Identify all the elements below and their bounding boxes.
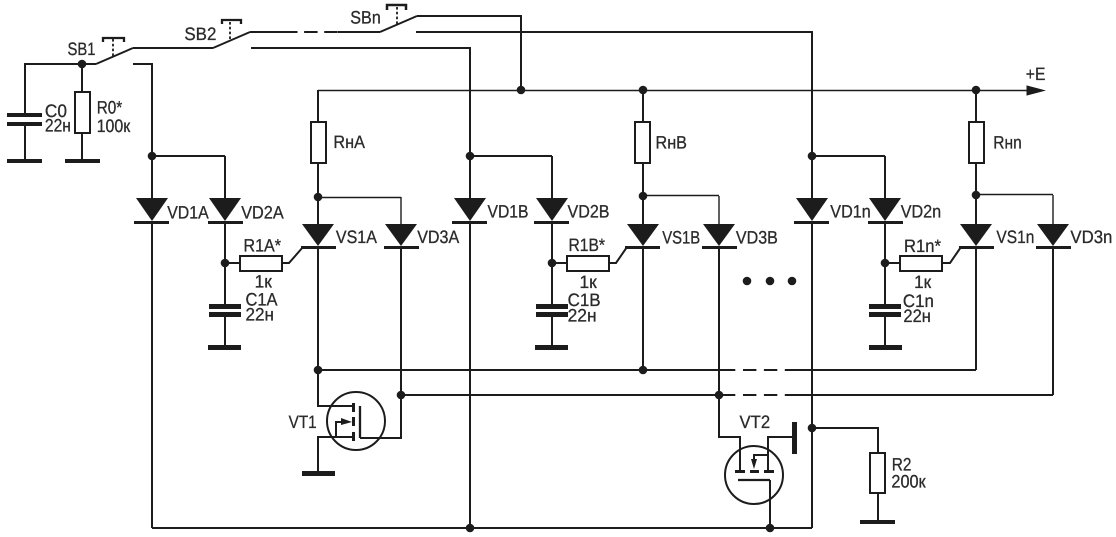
wire VS1A cathode down bbox=[317, 249, 319, 370]
svg-text:22н: 22н bbox=[246, 304, 275, 324]
svg-text:VD3n: VD3n bbox=[1070, 227, 1112, 247]
wire chain to SBn pivot bbox=[338, 31, 380, 33]
wire VD2A cathode to C1A bbox=[224, 224, 226, 304]
wire +E rail bbox=[318, 90, 1027, 92]
diode VD1B bbox=[452, 156, 487, 224]
node Rнn bottom junction bbox=[972, 191, 981, 200]
svg-text:SBn: SBn bbox=[350, 7, 381, 27]
wire VT2 source to sensor plate bbox=[768, 437, 792, 470]
wire VT1 gate bbox=[360, 395, 401, 438]
node ellipsis dots bbox=[743, 277, 797, 286]
resistor R2 bbox=[870, 453, 885, 520]
svg-text:VT2: VT2 bbox=[740, 412, 771, 432]
switch SBn arm bbox=[380, 16, 417, 32]
svg-text:+E: +E bbox=[1026, 64, 1046, 84]
wire VD2B cathode to C1B bbox=[551, 224, 553, 304]
label C1A 22н bbox=[246, 290, 278, 325]
node R1A junction bbox=[221, 259, 230, 268]
node VT2 drain junction bbox=[715, 391, 724, 400]
node VS1B cathode junction bbox=[639, 366, 648, 375]
svg-text:RнA: RнA bbox=[333, 132, 365, 152]
svg-text:VS1B: VS1B bbox=[662, 228, 700, 248]
resistor R1A* bbox=[225, 256, 282, 271]
switch SB1 arm bbox=[96, 48, 133, 64]
resistor R0* bbox=[75, 64, 90, 159]
node RнB top junction bbox=[639, 86, 648, 95]
node VD1A top junction bbox=[148, 152, 157, 161]
label R0* 100к bbox=[97, 98, 131, 136]
diode VD2A bbox=[208, 156, 243, 224]
svg-text:VD3A: VD3A bbox=[417, 227, 459, 247]
svg-text:R1A*: R1A* bbox=[244, 235, 282, 255]
node VD1B top junction bbox=[466, 152, 475, 161]
svg-text:200к: 200к bbox=[891, 472, 925, 492]
wire VT2 gate to bottom rail bbox=[769, 480, 771, 528]
label R1n* 1к bbox=[904, 236, 941, 292]
svg-text:VD2n: VD2n bbox=[901, 202, 942, 222]
svg-text:VS1A: VS1A bbox=[336, 227, 377, 247]
node VT1 gate junction bbox=[397, 391, 406, 400]
wire R1A to VS1A gate bbox=[282, 247, 303, 263]
svg-text:R1n*: R1n* bbox=[904, 236, 941, 256]
svg-text:SB2: SB2 bbox=[184, 24, 216, 44]
node bottom rail VT2 gate junction bbox=[766, 524, 775, 533]
diode VD1A bbox=[134, 156, 169, 224]
svg-text:SB1: SB1 bbox=[68, 39, 96, 59]
wire VS1B cathode down bbox=[642, 249, 644, 370]
capacitor C1B bbox=[536, 304, 568, 345]
wire VS cathode rail left bbox=[318, 369, 735, 371]
thyristor VS1A bbox=[301, 197, 336, 249]
svg-text:22н: 22н bbox=[903, 306, 931, 326]
svg-text:VD1B: VD1B bbox=[488, 202, 529, 222]
wire VD3n cathode down bbox=[1052, 249, 1054, 395]
svg-text:1к: 1к bbox=[580, 272, 597, 292]
svg-text:22н: 22н bbox=[568, 305, 597, 325]
ground R0 bbox=[65, 159, 100, 163]
node VS1A cathode junction bbox=[314, 366, 323, 375]
wire VD2n cathode to C1n bbox=[884, 224, 886, 304]
node +E arrow bbox=[1027, 85, 1047, 95]
capacitor C1n bbox=[869, 304, 901, 345]
node VD1n top junction bbox=[808, 152, 817, 161]
svg-text:VD2B: VD2B bbox=[568, 202, 610, 222]
wire Rнn to VD3n link bbox=[976, 194, 1053, 196]
capacitor C0 bbox=[7, 113, 42, 159]
svg-text:100к: 100к bbox=[97, 116, 131, 136]
wire VD3 cathode rail left bbox=[401, 394, 735, 396]
switch SB2 button actuator bbox=[222, 20, 241, 41]
ground C1A bbox=[208, 345, 241, 350]
resistor R1B* bbox=[552, 256, 609, 271]
svg-text:VD3B: VD3B bbox=[736, 228, 778, 248]
svg-text:VD2A: VD2A bbox=[241, 203, 284, 223]
ground C0 bbox=[7, 159, 42, 163]
resistor R1n* bbox=[885, 256, 942, 271]
wire C0 top to SB1 node bbox=[25, 64, 96, 113]
wire RнB to VD3B link bbox=[643, 195, 719, 197]
resistor RнB bbox=[635, 90, 650, 196]
node RнB bottom junction bbox=[639, 192, 648, 201]
transistor VT1 bbox=[327, 392, 385, 450]
node R1B junction bbox=[548, 259, 557, 268]
thyristor VS1B bbox=[625, 196, 660, 249]
wire SB2 fixed contact down to VD1B bbox=[251, 48, 470, 156]
label R1B* 1к bbox=[569, 235, 606, 292]
ground R2 bbox=[860, 520, 895, 524]
node Rнn top junction bbox=[972, 86, 981, 95]
svg-text:VD1n: VD1n bbox=[830, 202, 871, 222]
diode VD3B bbox=[702, 196, 737, 249]
wire SB1 fixed contact down bbox=[133, 64, 152, 156]
label C0 22н bbox=[45, 101, 71, 136]
wire RнA to VD3A link bbox=[318, 197, 401, 199]
wire VD1B to VD2B link bbox=[470, 155, 552, 157]
diode VD2B bbox=[534, 156, 569, 224]
diode VD1n bbox=[794, 156, 829, 224]
node SBn to +E junction bbox=[517, 86, 526, 95]
node bottom rail VD1B junction bbox=[466, 524, 475, 533]
wire VD3 cathode rail dashed bbox=[743, 394, 798, 396]
wire VT2 drain bbox=[719, 395, 740, 470]
svg-text:22н: 22н bbox=[45, 116, 71, 136]
svg-text:1к: 1к bbox=[255, 272, 272, 292]
node RнA bottom junction bbox=[314, 193, 323, 202]
wire bottom rail bbox=[152, 527, 812, 529]
svg-text:VT1: VT1 bbox=[289, 412, 317, 432]
wire VS cathode rail right bbox=[798, 369, 976, 371]
wire VS1n cathode down bbox=[975, 249, 977, 370]
switch SBn button actuator bbox=[387, 5, 406, 25]
switch SB2 arm bbox=[213, 32, 250, 48]
wire R1B to VS1B gate bbox=[609, 247, 627, 263]
svg-text:RнB: RнB bbox=[656, 132, 688, 152]
node SB1 junction bbox=[78, 60, 87, 69]
wire VD3A cathode down bbox=[400, 249, 402, 395]
wire SB1 output to SB2 pivot bbox=[133, 47, 213, 49]
wire VD1A cathode to bottom rail bbox=[151, 224, 153, 528]
label R1A* 1к bbox=[244, 235, 282, 291]
resistor Rнn bbox=[969, 90, 984, 195]
node R2 top junction bbox=[808, 424, 817, 433]
svg-text:Rнn: Rнn bbox=[993, 132, 1022, 152]
wire VD1n to VD2n link bbox=[812, 155, 885, 157]
ground C1n bbox=[869, 345, 902, 350]
diode VD3n bbox=[1036, 195, 1071, 249]
resistor RнA bbox=[311, 90, 326, 197]
wire SB2 output solid bbox=[250, 31, 284, 33]
wire VD1A to VD2A link bbox=[152, 155, 225, 157]
wire R2 node to resistor bbox=[812, 428, 878, 453]
label R2 200к bbox=[891, 455, 925, 492]
switch SB1 button actuator bbox=[103, 38, 124, 57]
thyristor VS1n bbox=[959, 195, 994, 249]
wire R1n to VS1n gate bbox=[942, 247, 961, 263]
svg-text:1к: 1к bbox=[914, 272, 931, 292]
wire SBn output to +E rail bbox=[417, 16, 521, 90]
diode VD2n bbox=[868, 156, 903, 224]
node sensor plate E1 bbox=[792, 422, 797, 454]
svg-text:R1B*: R1B* bbox=[569, 235, 606, 255]
ground VT1 source bbox=[302, 471, 335, 476]
label C1n 22н bbox=[903, 291, 934, 326]
capacitor C1A bbox=[209, 304, 241, 345]
node R1n junction bbox=[881, 259, 890, 268]
svg-text:R0*: R0* bbox=[97, 98, 123, 118]
wire chain dashed continuation bbox=[284, 31, 338, 33]
ground C1B bbox=[535, 345, 568, 350]
transistor VT2 bbox=[725, 446, 783, 504]
svg-text:VD1A: VD1A bbox=[167, 203, 209, 223]
wire VD1B cathode to bottom rail bbox=[469, 224, 471, 528]
wire VD3 cathode rail right bbox=[798, 394, 1053, 396]
diode VD3A bbox=[384, 197, 419, 249]
wire SBn fixed contact down to VD1n bbox=[416, 32, 812, 156]
wire VD1n cathode to bottom rail bbox=[811, 224, 813, 528]
wire VD3B cathode down bbox=[718, 249, 720, 395]
wire VT1 drain bbox=[318, 370, 352, 406]
label C1B 22н bbox=[568, 290, 601, 325]
wire VT1 source to ground bbox=[318, 437, 352, 471]
wire VS cathode rail dashed bbox=[743, 369, 798, 371]
svg-text:VS1n: VS1n bbox=[996, 227, 1034, 247]
